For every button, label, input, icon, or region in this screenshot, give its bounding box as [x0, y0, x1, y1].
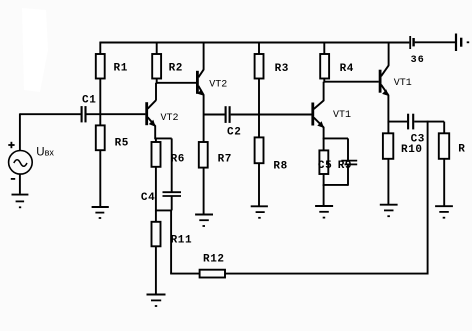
resistor R5 — [96, 125, 105, 150]
transistor VT2 second: bar — [196, 71, 199, 94]
wire input horizontal — [20, 113, 81, 115]
wire emitter node horizontal to C3 — [388, 121, 407, 123]
resistor R3 — [255, 54, 264, 79]
wire VT1 second emitter down — [323, 127, 325, 139]
wire node down to VT1 collector — [323, 82, 325, 101]
svg-text:R11: R11 — [171, 234, 193, 246]
wire node down to VT2 collector — [155, 83, 157, 101]
wire VT1 output emitter down — [387, 95, 389, 123]
wire C4 branch down — [171, 138, 173, 192]
ground R — [435, 205, 453, 207]
wire R3 branch vertical — [258, 42, 260, 55]
svg-text:R5: R5 — [115, 138, 129, 150]
transistor VT1 output: bar — [379, 70, 382, 93]
svg-text:C1: C1 — [82, 94, 96, 106]
wire R10 to ground — [387, 159, 389, 204]
VT1 second emitter arrow — [317, 121, 324, 128]
svg-text:R10: R10 — [401, 144, 423, 156]
ground R11 — [147, 294, 166, 296]
wire C3 to R — [414, 121, 444, 123]
svg-text:C2: C2 — [227, 127, 241, 139]
transistor VT2 first: bar — [145, 102, 148, 125]
VT2 second emitter diagonal — [198, 86, 203, 95]
wire R2 branch vertical — [156, 42, 158, 55]
wire source to ground — [19, 174, 21, 194]
ground C5R9 — [315, 205, 333, 207]
svg-text:VT1: VT1 — [394, 78, 412, 89]
svg-text:Uвх: Uвх — [36, 147, 54, 159]
resistor R12 — [200, 270, 225, 278]
wire feedback node down — [170, 210, 172, 274]
svg-text:36: 36 — [411, 55, 425, 66]
wire VT2 first emitter down — [154, 126, 156, 140]
resistor R1 — [96, 54, 105, 79]
source circle Uvx — [9, 151, 33, 175]
wire R6 bottom — [155, 167, 157, 211]
battery cell 1 long plate — [409, 36, 411, 49]
VT1 output emitter diagonal — [381, 85, 388, 96]
sine wave — [14, 160, 27, 167]
VT2 first emitter arrow — [149, 120, 156, 127]
svg-text:C4: C4 — [141, 192, 155, 204]
wire feedback horizontal right part — [225, 273, 428, 275]
svg-text:R: R — [458, 144, 465, 156]
wire R1 branch vertical — [99, 42, 101, 55]
wire VT1 output collector to rail — [388, 42, 390, 66]
wire R4 bottom to node — [323, 79, 325, 83]
wire R11 to ground — [155, 246, 157, 293]
svg-text:R1: R1 — [114, 62, 128, 74]
white patch top-left — [22, 8, 48, 92]
wire VT2 second collector up to rail — [203, 42, 205, 70]
VT2 second collector diagonal — [198, 69, 203, 77]
wire R4 branch vertical — [323, 42, 325, 55]
wire feedback vertical up — [427, 121, 429, 275]
wire down to ground — [323, 185, 325, 206]
resistor R7 — [199, 142, 208, 168]
svg-text:R12: R12 — [203, 254, 225, 266]
ground R7 — [195, 214, 213, 216]
capacitor C5 branch — [347, 138, 349, 160]
svg-text:R6: R6 — [171, 153, 185, 165]
resistor R8 — [255, 137, 264, 163]
ground R10 — [380, 204, 398, 206]
svg-text:R4: R4 — [340, 63, 354, 75]
resistor R2 — [152, 54, 161, 79]
VT2 first emitter diagonal — [148, 117, 156, 126]
plus sign — [8, 144, 14, 146]
wire R7 to ground — [203, 168, 205, 214]
wire source drop — [19, 113, 21, 151]
ground R8 — [251, 205, 268, 207]
wire C1 to base VT2 — [87, 113, 146, 115]
battery cell 1 short plate — [412, 38, 414, 46]
VT1 second emitter diagonal — [314, 118, 324, 128]
svg-text:C5: C5 — [318, 160, 332, 172]
battery minus dash — [467, 41, 470, 43]
svg-text:VT1: VT1 — [333, 110, 351, 121]
svg-text:VT2: VT2 — [161, 113, 179, 124]
minus sign — [11, 178, 15, 180]
transistor VT1 second: bar — [311, 103, 314, 126]
svg-text:R8: R8 — [273, 160, 287, 172]
resistor R6 — [152, 142, 161, 167]
wire rail between battery cells — [415, 41, 455, 43]
capacitor C3 — [407, 114, 409, 130]
VT1 output emitter arrow — [382, 89, 389, 96]
resistor R11 — [152, 222, 161, 247]
wire top supply rail — [100, 42, 410, 44]
capacitor C2 — [225, 106, 227, 123]
wire rejoin horizontal above R11 — [156, 209, 172, 211]
wire C4 bottom — [171, 196, 173, 210]
wire feedback horizontal left part — [170, 273, 200, 275]
wire C2 to VT1 base — [231, 114, 312, 116]
wire R3 bottom through node to R8 — [258, 79, 260, 138]
wire R5 to ground — [99, 150, 101, 206]
svg-text:R3: R3 — [275, 63, 289, 75]
wire R1 bottom to C1 node to R5 — [99, 79, 101, 126]
svg-text:R9: R9 — [338, 160, 352, 172]
VT1 second collector diagonal — [314, 100, 324, 109]
VT2 second emitter arrow — [197, 89, 204, 96]
capacitor C1 — [81, 106, 83, 122]
VT1 output collector diagonal — [381, 65, 389, 76]
ground R5 — [92, 206, 109, 208]
resistor R4 — [320, 54, 329, 79]
VT2 first collector diagonal — [148, 100, 156, 109]
wire emitter split horizontal — [154, 137, 171, 139]
wire VT2 second emitter down to R7 — [203, 95, 205, 143]
capacitor C4 — [163, 191, 182, 193]
ground source — [12, 194, 29, 196]
wire C2 horizontal from emitter — [204, 114, 225, 116]
resistor R load — [439, 133, 449, 159]
wire node to VT2 base horizontal — [156, 82, 196, 84]
svg-text:R2: R2 — [169, 62, 183, 74]
wire R8 to ground — [258, 163, 260, 206]
resistor R10 — [383, 133, 393, 159]
battery cell 2 short plate — [460, 38, 462, 47]
wire node to VT1 output base — [324, 81, 379, 83]
svg-text:R7: R7 — [218, 154, 232, 166]
svg-text:VT2: VT2 — [209, 80, 227, 91]
wire R to ground — [443, 159, 445, 206]
resistor R9 body — [319, 150, 328, 174]
battery cell 2 long plate — [455, 34, 457, 52]
wire emitter split horizontal (C5 R9) — [323, 137, 348, 139]
wire R2 bottom to node — [156, 79, 158, 84]
wire rejoin bottom — [323, 184, 348, 186]
